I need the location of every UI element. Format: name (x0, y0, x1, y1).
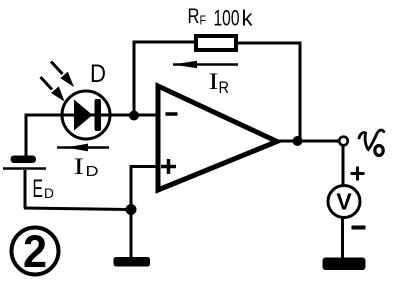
photodiode D anode triangle (74, 100, 93, 131)
wire: feedback top rail right segment (236, 42, 302, 45)
svg-text:R: R (188, 5, 200, 28)
node: output open terminal (339, 137, 348, 146)
svg-text:D: D (90, 60, 106, 88)
svg-text:D: D (86, 163, 99, 180)
wire: battery negative down to bottom rail (24, 170, 27, 209)
ground (op-amp non-inverting / bottom rail) (114, 257, 151, 267)
label V0 (script) (359, 130, 384, 155)
light arrow lower (41, 77, 65, 102)
svg-text:R: R (219, 78, 230, 97)
node: output junction dot (293, 136, 303, 146)
svg-text:2: 2 (23, 226, 47, 277)
op-amp U1 triangle (158, 86, 277, 190)
label IR (209, 69, 230, 97)
label ID (74, 154, 99, 180)
svg-text:E: E (33, 175, 44, 203)
figure number circle 2 (12, 226, 59, 277)
svg-text:I: I (74, 154, 85, 179)
current arrow ID (pointing left, below diode) (57, 144, 109, 152)
op-amp minus sign (166, 112, 178, 116)
svg-text:100: 100 (214, 6, 240, 31)
wire: voltmeter down to ground (341, 217, 344, 259)
voltmeter V body circle (328, 186, 360, 218)
wire: vertical from non-inverting stub down to ground junction (130, 165, 133, 210)
label RF 100k (188, 5, 254, 31)
svg-text:D: D (44, 185, 54, 201)
wire: feedback right vertical down to output node (299, 42, 302, 141)
resistor RF body (196, 36, 236, 50)
photodiode D cathode bar (95, 99, 102, 131)
op-amp plus sign (161, 159, 176, 174)
photodiode D body circle (62, 91, 110, 139)
wire: feedback left vertical up from inverting node (133, 42, 136, 115)
label ED (33, 175, 55, 203)
battery ED bottom plate (thin long line) (3, 167, 46, 170)
svg-text:I: I (209, 69, 219, 94)
battery ED top plate (thick short bar) (11, 156, 37, 164)
current arrow IR (pointing left, under resistor) (173, 61, 238, 69)
node: ground junction dot (bottom rail) (126, 204, 137, 215)
svg-text:F: F (200, 13, 207, 28)
node: inverting input junction dot (129, 111, 139, 121)
wire: feedback top rail left segment (133, 41, 198, 44)
wire: bottom rail from battery to ground junction (24, 208, 131, 210)
wire: terminal down to voltmeter (342, 146, 345, 187)
wire: op-amp output to terminal (276, 140, 339, 143)
wire: junction down to ground (130, 210, 133, 258)
plus sign (voltmeter top) (351, 167, 365, 181)
wire: left vertical from anode down to battery (25, 114, 28, 158)
ground (voltmeter) (323, 258, 366, 271)
svg-text:k: k (242, 6, 254, 31)
svg-text:V: V (336, 189, 352, 215)
wire: diode anode left horizontal + input node wire to op-amp (26, 114, 157, 117)
minus sign (voltmeter bottom) (352, 226, 366, 230)
light arrow upper (51, 62, 74, 88)
wire: non-inverting input stub (130, 165, 158, 168)
